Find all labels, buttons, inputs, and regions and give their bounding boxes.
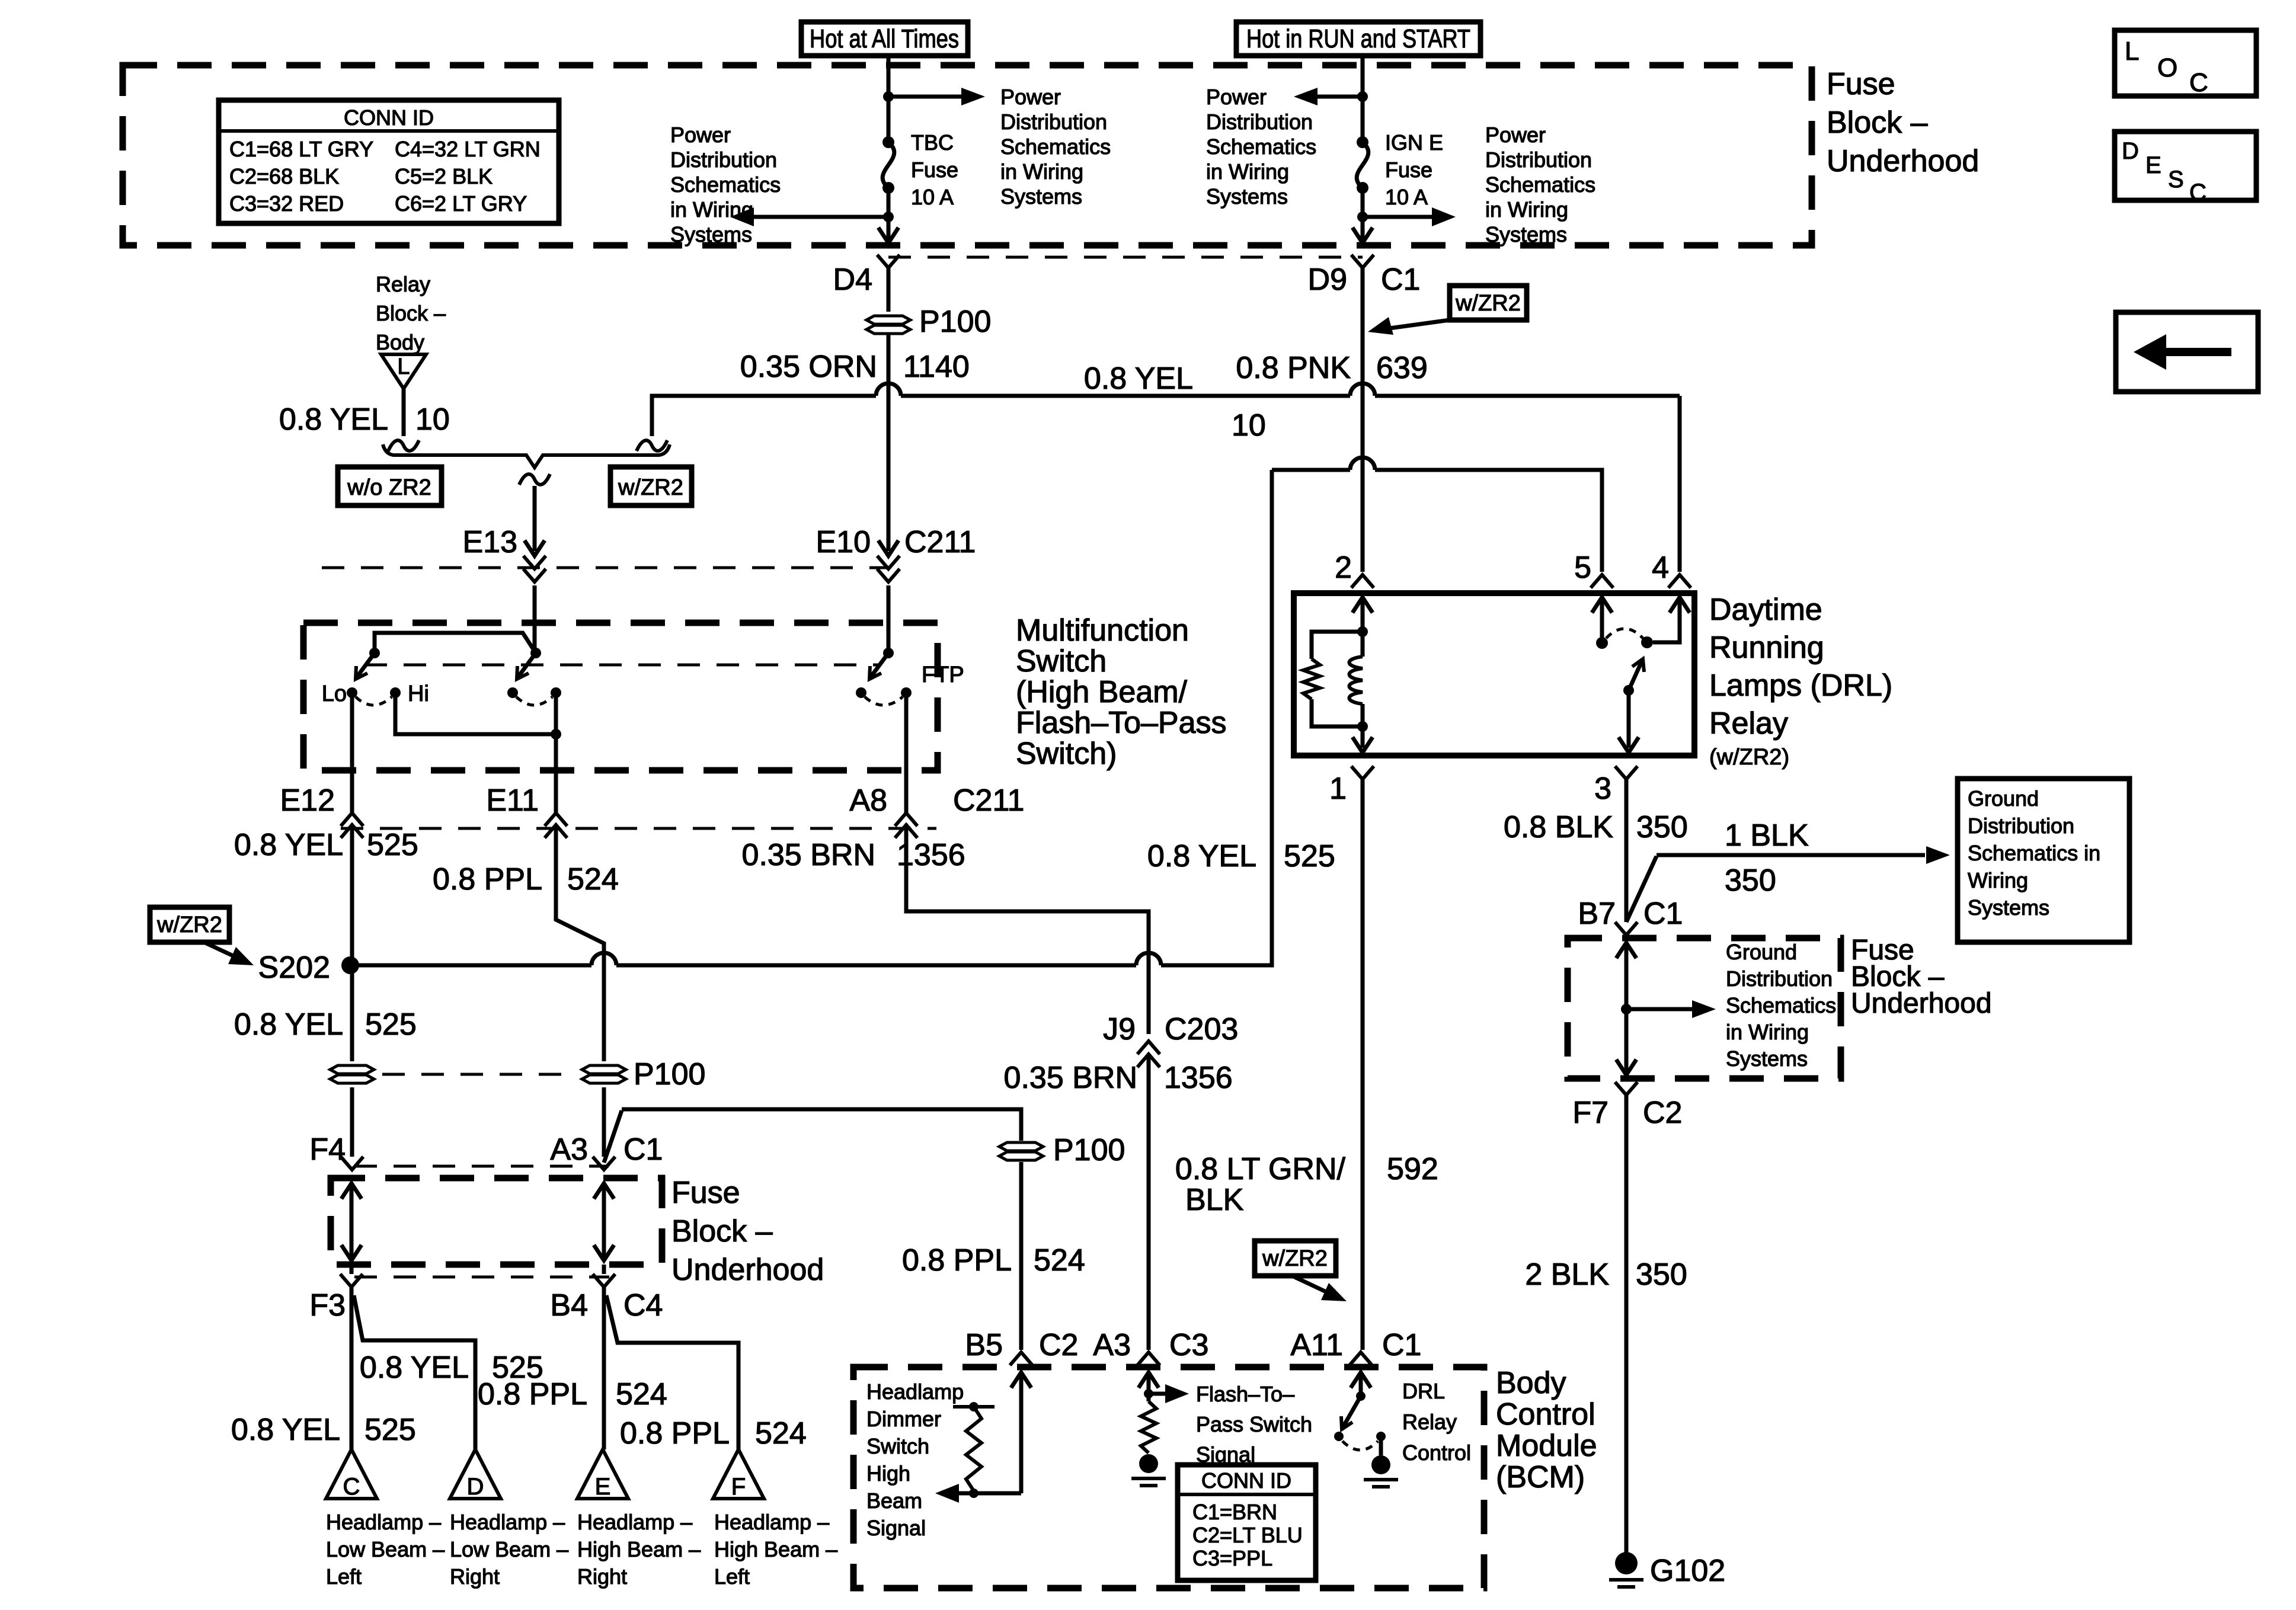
wire: IGN E fuse output down to D9: [1361, 217, 1365, 239]
svg-text:C4: C4: [623, 1288, 663, 1323]
svg-text:Underhood: Underhood: [1827, 144, 1979, 178]
svg-text:Fuse: Fuse: [671, 1176, 740, 1210]
svg-text:DRL: DRL: [1402, 1379, 1445, 1403]
svg-text:Running: Running: [1709, 630, 1824, 665]
wire: 1 BLK 350 to ground distribution: [1657, 853, 1925, 857]
svg-text:Schematics: Schematics: [670, 172, 781, 197]
svg-text:IGN E: IGN E: [1385, 130, 1443, 155]
svg-text:Switch: Switch: [866, 1434, 929, 1458]
svg-text:in Wiring: in Wiring: [670, 197, 753, 222]
svg-text:1 BLK: 1 BLK: [1725, 818, 1809, 853]
relay suppression resistor branch: [1312, 632, 1363, 659]
junction node (DRL control): [1356, 1391, 1366, 1401]
svg-text:FTP: FTP: [922, 662, 964, 687]
svg-text:Power: Power: [1000, 85, 1061, 109]
dashed contact arc (relay): [1606, 629, 1643, 638]
dimmer signal stub: [953, 1405, 994, 1409]
svg-text:E: E: [595, 1474, 611, 1500]
inline option connector curl (merged output): [519, 474, 550, 485]
svg-text:G102: G102: [1650, 1554, 1725, 1588]
svg-text:E12: E12: [280, 783, 335, 818]
svg-text:C203: C203: [1165, 1012, 1238, 1046]
svg-text:(BCM): (BCM): [1496, 1460, 1585, 1494]
BCM input arrow (A3): [1139, 1372, 1159, 1388]
connector pin A3 chevron (C1): [593, 1157, 615, 1170]
wire: bus drop at left end: [652, 396, 664, 436]
svg-text:F3: F3: [309, 1288, 346, 1323]
svg-text:A3: A3: [550, 1132, 588, 1167]
svg-text:A3: A3: [1093, 1328, 1131, 1362]
body control module dashed outline: [853, 1367, 1484, 1588]
svg-text:C3=PPL: C3=PPL: [1192, 1546, 1272, 1570]
wire: DRL contact to ground: [1379, 1436, 1383, 1455]
svg-text:C1=BRN: C1=BRN: [1192, 1500, 1277, 1524]
svg-text:Block –: Block –: [376, 301, 446, 325]
wire: merged 0.8 YEL down to E13: [533, 486, 537, 551]
svg-text:Underhood: Underhood: [671, 1253, 824, 1287]
wire: Lo contact down to E12: [350, 693, 354, 814]
relay pin 1 chevron: [1351, 766, 1374, 779]
svg-text:Wiring: Wiring: [1968, 868, 2028, 892]
inline connector P100 (ORN wire): [866, 316, 910, 324]
wire: 0.35 ORN from D4 to P100: [887, 268, 891, 312]
relay common output arrow to pin 3: [1627, 690, 1631, 748]
svg-text:F: F: [731, 1474, 746, 1500]
connector pin D4 chevron: [877, 255, 900, 268]
junction node below IGN E fuse: [1357, 212, 1368, 222]
svg-text:Pass Switch: Pass Switch: [1196, 1412, 1312, 1436]
svg-text:0.35 BRN: 0.35 BRN: [742, 838, 875, 872]
svg-text:Schematics: Schematics: [1726, 993, 1836, 1017]
svg-text:Low Beam –: Low Beam –: [326, 1537, 445, 1561]
svg-text:Block –: Block –: [1827, 105, 1928, 140]
svg-text:High: High: [866, 1461, 910, 1486]
relay pin 4 chevron: [1668, 575, 1691, 588]
svg-text:Beam: Beam: [866, 1489, 922, 1513]
svg-text:10 A: 10 A: [911, 185, 954, 209]
svg-text:Fuse: Fuse: [1385, 158, 1432, 182]
svg-text:Body: Body: [1496, 1366, 1566, 1400]
svg-text:Fuse: Fuse: [1827, 67, 1895, 101]
relay armature arm: [1629, 660, 1642, 690]
svg-text:w/ZR2: w/ZR2: [1455, 291, 1521, 316]
svg-text:O: O: [2157, 53, 2177, 82]
relay contact node (pin 4): [1641, 636, 1653, 648]
wire: 0.8 YEL 525 to headlamp low left: [350, 1287, 354, 1449]
wire: 0.8 PNK from D9 down to DRL relay pin 2: [1361, 268, 1365, 572]
svg-text:Schematics: Schematics: [1000, 135, 1111, 159]
option merge brace (w/o ZR2 vs w/ZR2): [383, 444, 670, 468]
wire: 0.8 YEL 525 below S202: [350, 965, 354, 1061]
svg-text:C1: C1: [623, 1132, 663, 1167]
svg-text:524: 524: [755, 1416, 807, 1451]
arrow to Power Distribution Schematics (left of IGN E): [1310, 95, 1363, 99]
svg-text:C211: C211: [904, 525, 976, 559]
wire: E13 into multifunction switch: [533, 585, 537, 653]
contact Hi: [390, 687, 401, 698]
svg-text:Body: Body: [376, 330, 424, 354]
connector pin E11 chevrons: [545, 813, 567, 826]
connector pin A8 chevrons: [895, 813, 917, 826]
wire: FTP output down to A8: [904, 693, 909, 814]
high-beam switch arm: [517, 653, 536, 678]
svg-text:C2=68 BLK: C2=68 BLK: [229, 164, 339, 188]
svg-text:C4=32 LT GRN: C4=32 LT GRN: [395, 137, 541, 161]
connector dashed line C1 (D4-D9): [888, 256, 1363, 259]
svg-text:Flash–To–Pass: Flash–To–Pass: [1016, 706, 1227, 740]
connector pin F7 chevron (C2): [1615, 1082, 1638, 1095]
svg-text:C5=2 BLK: C5=2 BLK: [395, 164, 493, 188]
wire: Hi contact to common junction: [395, 693, 556, 734]
branch slash 1 BLK 350: [1626, 856, 1657, 922]
svg-text:Distribution: Distribution: [1968, 814, 2074, 838]
wire: 2 BLK 350 to G102: [1625, 1095, 1629, 1553]
svg-text:0.8 PPL: 0.8 PPL: [902, 1243, 1012, 1278]
svg-text:Schematics: Schematics: [1485, 172, 1595, 197]
svg-text:Headlamp: Headlamp: [866, 1379, 964, 1404]
contact Lo: [347, 687, 357, 698]
svg-text:525: 525: [365, 1007, 417, 1042]
mechanical coupling dashed line: [364, 664, 880, 667]
svg-text:Daytime: Daytime: [1709, 593, 1822, 627]
contact (DRL right): [1376, 1432, 1386, 1441]
wire: Hot at All Times feed into fuse block: [887, 56, 891, 97]
FTP pivot node: [883, 648, 894, 658]
contact (FTP left): [856, 687, 866, 698]
CONN ID table (BCM): [1178, 1465, 1316, 1580]
svg-text:E11: E11: [486, 783, 539, 818]
connector dashed line C211 (E12-E11-A8): [341, 827, 936, 830]
svg-text:w/ZR2: w/ZR2: [1262, 1246, 1328, 1271]
svg-text:5: 5: [1574, 550, 1591, 585]
svg-text:L: L: [397, 354, 410, 379]
svg-text:0.8 PNK: 0.8 PNK: [1236, 351, 1351, 385]
wire: high-beam output down to E11: [554, 734, 558, 814]
dashed contact arc (DRL control): [1342, 1441, 1378, 1450]
relay coil feed arrow (pin 2): [1352, 597, 1373, 613]
svg-text:525: 525: [1284, 839, 1335, 873]
fuse block pass-through arrows (left): [350, 1187, 354, 1257]
svg-text:Distribution: Distribution: [1485, 148, 1592, 172]
arrow to Power Distribution Schematics (right of IGN E): [1363, 215, 1439, 219]
svg-text:0.8 PPL: 0.8 PPL: [433, 862, 542, 897]
svg-text:1140: 1140: [903, 350, 970, 384]
wire: bus rise to DRL relay pin 4: [1678, 396, 1682, 572]
svg-text:2: 2: [1335, 550, 1352, 585]
junction node (B5 line): [969, 1489, 978, 1498]
svg-text:F4: F4: [309, 1132, 346, 1167]
ground distribution reference box: [1958, 779, 2129, 942]
svg-text:TBC: TBC: [911, 130, 954, 155]
arrow: flash-to-pass switch signal: [1149, 1392, 1172, 1396]
fuse block underhood dashed outline (top): [123, 65, 1812, 245]
fuse block underhood dashed outline (right): [1568, 938, 1841, 1078]
svg-text:Systems: Systems: [1206, 184, 1288, 209]
svg-text:Signal: Signal: [866, 1516, 926, 1540]
dashed contact arc (FTP): [865, 697, 903, 705]
svg-text:D: D: [467, 1474, 484, 1500]
svg-text:Systems: Systems: [1000, 184, 1082, 209]
svg-text:350: 350: [1636, 810, 1688, 844]
svg-text:Ground: Ground: [1726, 940, 1797, 964]
svg-text:1356: 1356: [897, 838, 965, 872]
svg-text:350: 350: [1725, 863, 1776, 898]
contact (FTP right): [901, 687, 912, 698]
svg-text:C: C: [2189, 68, 2208, 97]
svg-text:Right: Right: [577, 1564, 627, 1589]
svg-text:0.8 YEL: 0.8 YEL: [234, 1007, 343, 1042]
dimmer pivot node (left): [369, 648, 380, 658]
wire: 0.35 BRN 1356 from A8: [906, 828, 1149, 1034]
svg-text:2 BLK: 2 BLK: [1525, 1257, 1609, 1292]
DRL relay box: [1294, 593, 1694, 756]
connector pin F4 chevron: [341, 1157, 363, 1170]
wire: 0.8 YEL 525 across to DRL relay pin 5: [1272, 468, 1350, 472]
svg-text:10 A: 10 A: [1385, 185, 1428, 209]
off-page triangle F (Headlamp High Beam Left): [713, 1449, 764, 1499]
svg-text:B7: B7: [1578, 897, 1616, 931]
relay pin 5 chevron: [1591, 575, 1613, 588]
svg-text:A8: A8: [849, 783, 887, 818]
svg-text:0.35 ORN: 0.35 ORN: [740, 350, 877, 384]
relay coil return arrow to pin 1: [1361, 726, 1365, 748]
svg-text:Headlamp –: Headlamp –: [714, 1510, 829, 1534]
svg-text:Relay: Relay: [1709, 706, 1788, 741]
svg-text:C6=2 LT GRY: C6=2 LT GRY: [395, 191, 527, 216]
FTP switch arm: [870, 653, 888, 678]
svg-text:0.35 BRN: 0.35 BRN: [1004, 1061, 1137, 1095]
wire: 0.8 PPL 524 down to B5: [1019, 1162, 1024, 1350]
svg-text:C1: C1: [1381, 263, 1420, 297]
inline connector P100 (left): [330, 1065, 374, 1074]
callout box w/ZR2 (BCM): [1255, 1241, 1336, 1276]
svg-text:A11: A11: [1290, 1328, 1343, 1362]
high-beam pivot node (center): [530, 648, 541, 658]
dashed contact arc (center): [516, 697, 552, 705]
wire: 0.8 YEL 10 bus (horizontal): [664, 394, 876, 398]
inline connector P100 (524 wire): [999, 1142, 1043, 1151]
svg-text:Hot in RUN and START: Hot in RUN and START: [1246, 24, 1470, 53]
svg-text:Right: Right: [450, 1564, 500, 1589]
svg-text:0.8 YEL: 0.8 YEL: [231, 1413, 340, 1447]
callout box w/ZR2 (merge): [610, 467, 692, 505]
svg-text:C3: C3: [1169, 1328, 1208, 1362]
svg-text:C211: C211: [953, 783, 1024, 818]
svg-text:3: 3: [1594, 772, 1611, 806]
svg-text:Relay: Relay: [376, 272, 430, 296]
branch to headlamp low right: [354, 1295, 475, 1449]
dashed tie between P100 halves: [382, 1073, 576, 1076]
svg-text:0.8 YEL: 0.8 YEL: [234, 828, 343, 862]
svg-text:Systems: Systems: [1968, 895, 2049, 920]
svg-text:Hi: Hi: [408, 681, 429, 706]
connector pin E10 chevrons: [877, 556, 900, 569]
branch slash to 0.8 PPL 524 feed: [604, 1110, 622, 1163]
wire: 0.8 LT GRN/BLK 592 pin1 to A11: [1361, 779, 1365, 1350]
inline option connector curl (bus drop): [637, 440, 667, 451]
svg-text:Switch: Switch: [1016, 644, 1107, 678]
junction node (coil bottom): [1357, 721, 1368, 732]
svg-text:525: 525: [364, 1413, 416, 1447]
svg-text:P100: P100: [1053, 1133, 1125, 1167]
svg-text:C3=32 RED: C3=32 RED: [229, 191, 344, 216]
wire: 0.35 BRN 1356 to A3 (BCM): [1147, 1056, 1151, 1350]
callout box w/ZR2 (at C1): [1450, 286, 1527, 320]
svg-text:BLK: BLK: [1185, 1183, 1244, 1217]
connector dashed line (F4/A3): [354, 1165, 609, 1168]
svg-text:P100: P100: [634, 1057, 705, 1092]
svg-text:High Beam –: High Beam –: [714, 1537, 837, 1561]
svg-text:Systems: Systems: [670, 222, 752, 247]
dashed contact arc (Lo-Hi): [356, 697, 392, 705]
svg-text:C: C: [343, 1474, 360, 1500]
fuse: TBC Fuse 10 A: [882, 136, 894, 148]
wire: 0.8 PPL 524 down through S202 row: [602, 953, 606, 1061]
relay armature pivot node: [1623, 685, 1634, 696]
svg-text:Control: Control: [1496, 1397, 1595, 1432]
svg-text:525: 525: [367, 828, 418, 862]
wire: 0.8 YEL 10 from triangle L: [402, 389, 406, 436]
svg-text:350: 350: [1636, 1257, 1687, 1292]
connector pin D9 chevron: [1351, 255, 1374, 268]
feed label box: Hot at All Times: [801, 22, 968, 56]
svg-text:w/o ZR2: w/o ZR2: [347, 475, 431, 500]
relay contact node (pin 5): [1596, 637, 1608, 649]
svg-text:Left: Left: [714, 1564, 750, 1589]
off-page triangle L (Relay Block - Body): [381, 354, 426, 389]
wire: 0.8 YEL 525 from E12 to S202: [350, 828, 354, 965]
svg-text:Hot at All Times: Hot at All Times: [810, 24, 959, 53]
svg-text:524: 524: [1034, 1243, 1085, 1278]
svg-text:C1: C1: [1643, 897, 1683, 931]
wire: E10 into multifunction switch: [887, 585, 891, 653]
callout box w/ZR2 (S202): [150, 907, 229, 942]
wire: 0.8 YEL to F4: [350, 1087, 354, 1157]
svg-text:Schematics: Schematics: [1206, 135, 1316, 159]
junction node (stub): [969, 1402, 978, 1411]
svg-text:Distribution: Distribution: [1000, 110, 1107, 134]
svg-text:w/ZR2: w/ZR2: [156, 913, 222, 937]
wire: 0.8 BLK 350 pin3 to B7: [1625, 779, 1629, 922]
branch to headlamp high left: [606, 1295, 738, 1449]
svg-text:Dimmer: Dimmer: [866, 1407, 941, 1431]
wire: 0.8 PPL 524 over to B5 drop: [622, 1109, 1021, 1141]
svg-text:Left: Left: [326, 1564, 362, 1589]
svg-text:C1: C1: [1382, 1328, 1421, 1362]
svg-text:Power: Power: [1485, 123, 1546, 147]
junction node (ground ref): [1621, 1004, 1632, 1014]
feed label box: Hot in RUN and START: [1236, 22, 1480, 56]
contact (DRL left): [1334, 1432, 1344, 1441]
svg-text:CONN ID: CONN ID: [1201, 1468, 1291, 1493]
connector pin J9 chevrons: [1137, 1041, 1160, 1054]
svg-text:Headlamp –: Headlamp –: [577, 1510, 692, 1534]
connector dashed line (F3/B4): [354, 1276, 609, 1279]
ground (flash-to-pass internal): [1139, 1454, 1158, 1473]
wire: 0.8 PPL 524 to headlamp high right: [602, 1287, 606, 1449]
svg-text:E: E: [2145, 152, 2161, 178]
BCM input arrow (B5): [1011, 1372, 1031, 1388]
multifunction switch dashed outline: [303, 623, 938, 770]
svg-text:(w/ZR2): (w/ZR2): [1709, 745, 1789, 770]
svg-text:Power: Power: [670, 123, 731, 147]
svg-text:Schematics in: Schematics in: [1968, 841, 2100, 865]
off-page triangle E (Headlamp High Beam Right): [577, 1449, 628, 1499]
junction node (coil top): [1357, 626, 1368, 637]
svg-text:Headlamp –: Headlamp –: [450, 1510, 565, 1534]
svg-text:Multifunction: Multifunction: [1016, 613, 1189, 648]
inline connector P100 (right): [582, 1065, 626, 1074]
connector pin B7 chevron (C1): [1615, 922, 1638, 935]
svg-text:639: 639: [1376, 351, 1428, 385]
svg-text:Systems: Systems: [1485, 222, 1567, 247]
svg-text:E13: E13: [462, 525, 517, 559]
svg-text:F7: F7: [1572, 1096, 1609, 1130]
svg-text:Lo: Lo: [322, 681, 347, 706]
ground G102: [1615, 1552, 1638, 1574]
callout box w/o ZR2: [338, 467, 442, 505]
wire: 0.8 YEL 525 S202 run to riser: [350, 964, 591, 968]
fuse: IGN E Fuse 10 A: [1357, 136, 1368, 148]
back-arrow nav box: [2116, 312, 2258, 392]
resistor (flash-to-pass): [1141, 1401, 1156, 1453]
svg-text:0.8 PPL: 0.8 PPL: [620, 1416, 730, 1451]
svg-text:Fuse: Fuse: [911, 158, 958, 182]
connector pin B5 chevron (C2): [1010, 1352, 1032, 1365]
svg-text:C2=LT BLU: C2=LT BLU: [1192, 1523, 1303, 1547]
svg-text:B5: B5: [965, 1328, 1003, 1362]
svg-text:0.8 YEL: 0.8 YEL: [279, 402, 388, 437]
svg-text:Control: Control: [1402, 1441, 1471, 1465]
relay coil: [1350, 657, 1363, 704]
splice S202: [341, 956, 359, 974]
svg-text:E10: E10: [816, 525, 871, 559]
BCM input arrow (A11): [1351, 1372, 1371, 1388]
svg-text:0.8 YEL: 0.8 YEL: [360, 1350, 469, 1385]
svg-text:Power: Power: [1206, 85, 1267, 109]
connector pin E12 chevrons: [341, 813, 363, 826]
wire: TBC fuse output down to D4: [887, 217, 891, 239]
svg-text:4: 4: [1652, 550, 1669, 585]
svg-text:0.8 YEL: 0.8 YEL: [1147, 839, 1256, 873]
dimmer switch arm (to Lo): [356, 653, 375, 678]
svg-text:J9: J9: [1103, 1012, 1136, 1046]
connector pin B4 chevron (C4): [593, 1274, 615, 1287]
svg-text:Flash–To–: Flash–To–: [1196, 1382, 1294, 1406]
svg-text:D9: D9: [1308, 263, 1347, 297]
svg-text:in Wiring: in Wiring: [1000, 159, 1083, 184]
wire: Hot in RUN and START feed into fuse block: [1361, 56, 1365, 97]
wire: center right contact down: [554, 693, 558, 734]
svg-text:in Wiring: in Wiring: [1485, 197, 1568, 222]
svg-text:0.8 BLK: 0.8 BLK: [1504, 810, 1613, 844]
connector pin A3 chevron (C3): [1137, 1352, 1160, 1365]
off-page triangle D (Headlamp Low Beam Right): [450, 1449, 501, 1499]
svg-text:Underhood: Underhood: [1851, 988, 1992, 1019]
svg-text:(High Beam/: (High Beam/: [1016, 675, 1188, 709]
svg-text:Headlamp –: Headlamp –: [326, 1510, 441, 1534]
svg-text:Low Beam –: Low Beam –: [450, 1537, 568, 1561]
DRL control switch arm: [1342, 1396, 1361, 1428]
contact (center right): [551, 687, 561, 698]
svg-text:Ground: Ground: [1968, 786, 2039, 811]
junction node on TBC feed: [883, 91, 894, 102]
junction node on IGN E feed: [1357, 91, 1368, 102]
CONN ID table (fuse block): [219, 100, 559, 223]
svg-text:Switch): Switch): [1016, 737, 1117, 771]
connector dashed line C211 (E13-E10): [322, 566, 888, 569]
svg-text:Distribution: Distribution: [1726, 966, 1833, 991]
